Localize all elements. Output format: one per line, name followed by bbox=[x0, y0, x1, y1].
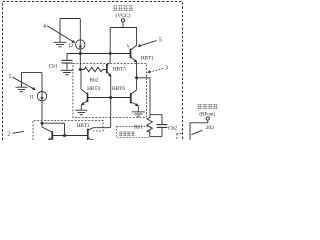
svg-text:Rb2: Rb2 bbox=[90, 78, 99, 84]
svg-text:1: 1 bbox=[9, 74, 12, 80]
svg-text:Rb1: Rb1 bbox=[134, 125, 143, 131]
svg-text:202: 202 bbox=[206, 125, 215, 131]
svg-text:Cb1: Cb1 bbox=[49, 64, 58, 70]
svg-text:HBT6: HBT6 bbox=[112, 86, 125, 92]
svg-text:(VCC): (VCC) bbox=[116, 12, 131, 19]
svg-text:HBT3: HBT3 bbox=[76, 123, 90, 129]
svg-text:Cb2: Cb2 bbox=[168, 125, 177, 131]
svg-text:2: 2 bbox=[7, 131, 10, 137]
svg-text:3: 3 bbox=[165, 66, 168, 72]
svg-text:I2: I2 bbox=[69, 44, 74, 49]
svg-text:HBT5: HBT5 bbox=[113, 67, 126, 73]
svg-text:HBT1: HBT1 bbox=[141, 55, 154, 61]
svg-text:4: 4 bbox=[43, 23, 46, 29]
svg-text:I1: I1 bbox=[30, 95, 35, 101]
svg-text:HBT4: HBT4 bbox=[87, 86, 100, 92]
svg-text:5: 5 bbox=[159, 37, 162, 43]
